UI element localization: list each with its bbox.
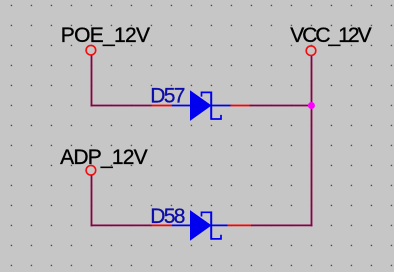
- svg-text:D58: D58: [150, 205, 184, 228]
- power terminal pin ADP_12V: [86, 166, 96, 176]
- pin 1 of D57 (anode, red): [152, 105, 173, 107]
- wire ADP_12V vertical drop: [91, 176, 93, 227]
- svg-text:ADP_12V: ADP_12V: [60, 146, 148, 169]
- junction node VCC_12V: [308, 102, 315, 109]
- svg-text:VCC_12V: VCC_12V: [290, 24, 371, 47]
- wire POE_12V vertical drop: [91, 56, 93, 107]
- svg-text:D57: D57: [150, 85, 184, 108]
- pin 1 of D58 (anode, red): [152, 224, 173, 226]
- wire POE_12V horizontal to D57 anode: [91, 105, 152, 107]
- wire D57 cathode to VCC junction: [250, 105, 312, 107]
- svg-text:POE_12V: POE_12V: [61, 24, 150, 47]
- power terminal pin POE_12V: [86, 45, 96, 55]
- pin 2 of D58 (cathode, red): [228, 224, 252, 226]
- power terminal pin VCC_12V: [306, 46, 316, 56]
- wire D58 cathode to VCC bus: [251, 224, 312, 226]
- diode D58 (Schottky): [172, 211, 228, 240]
- wire ADP_12V horizontal to D58 anode: [91, 224, 152, 226]
- pin 2 of D57 (cathode, red): [231, 105, 250, 107]
- diode D57 (Schottky): [172, 91, 231, 120]
- wire VCC_12V vertical bus: [311, 56, 313, 226]
